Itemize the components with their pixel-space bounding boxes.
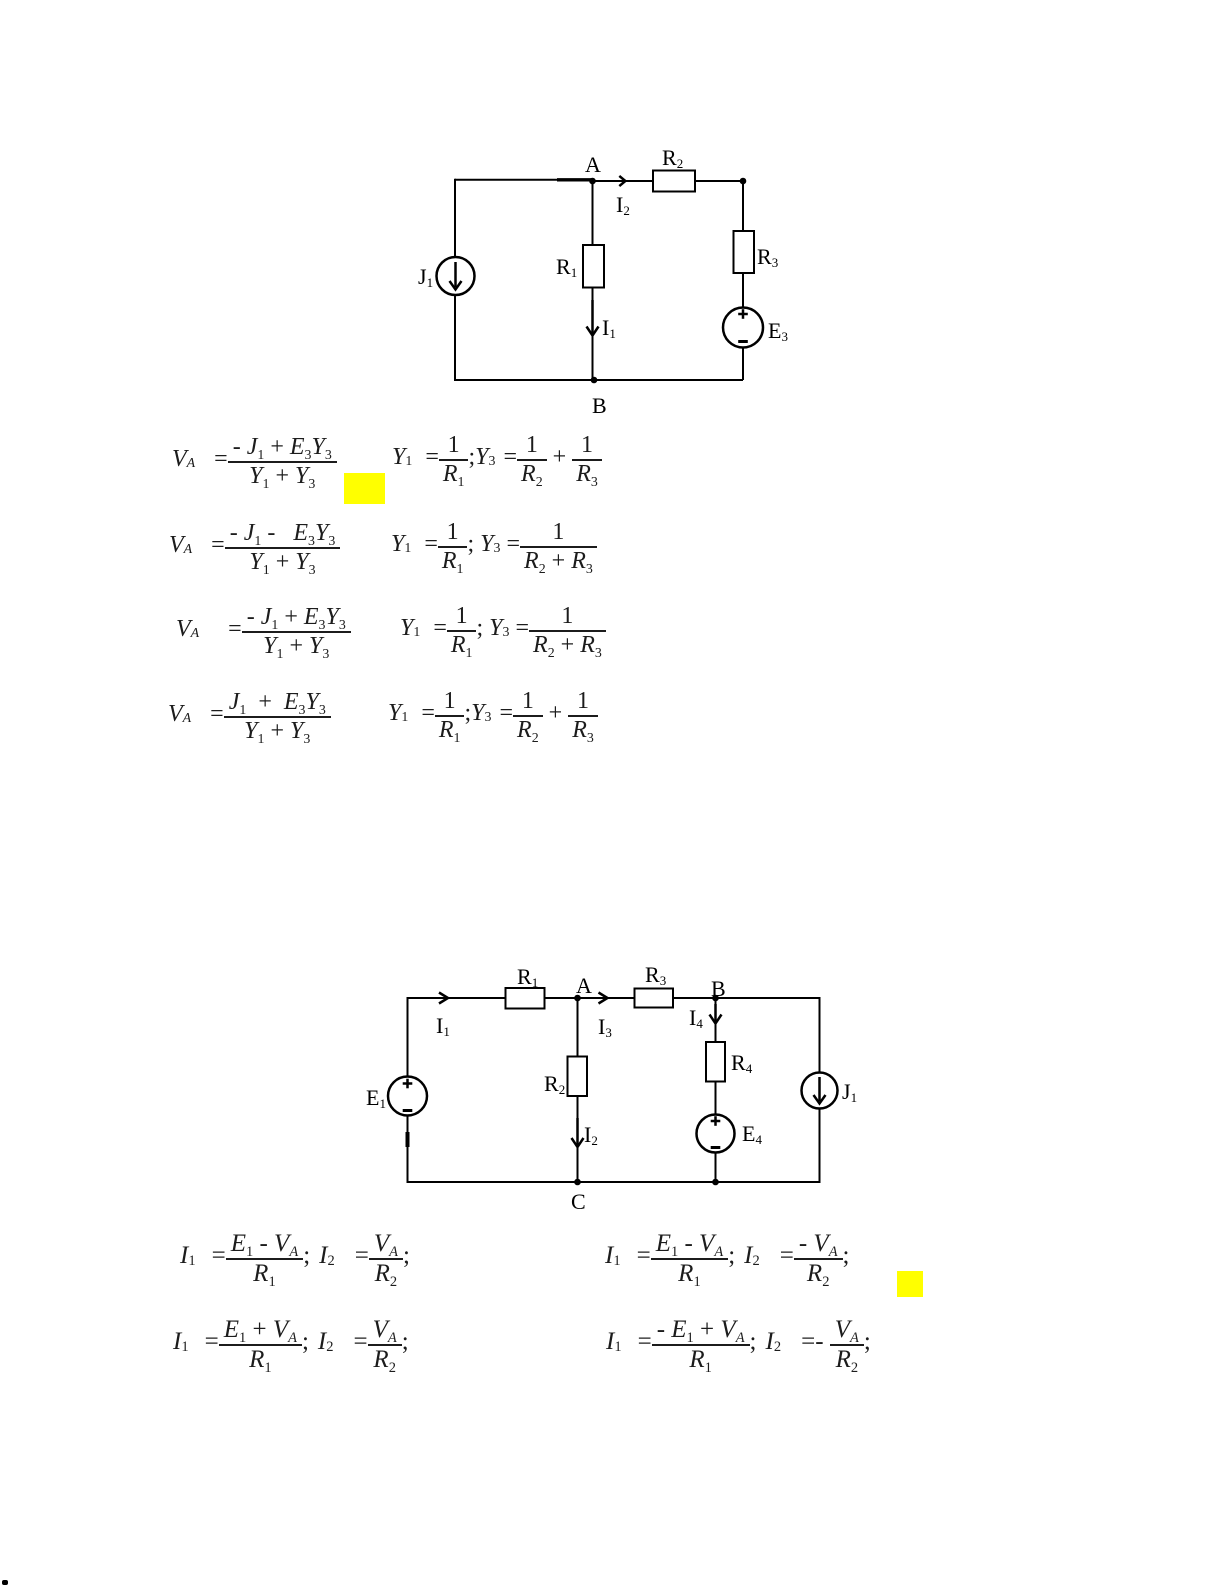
wire branch A C2 xyxy=(577,998,579,1182)
current arrow I1 C2 xyxy=(439,993,448,1004)
wire left C1 xyxy=(454,179,456,381)
wire thick segment below E1 xyxy=(406,1132,410,1147)
formula option 3: Y1,Y3 expressions xyxy=(400,600,606,656)
node A C2 xyxy=(574,995,581,1002)
wire top C1 xyxy=(455,180,743,181)
node B xyxy=(591,377,598,384)
node B label xyxy=(592,395,607,417)
node A C2 label xyxy=(576,975,592,997)
formula option 2: Y1,Y3 expressions xyxy=(391,516,597,572)
current arrow I1 xyxy=(587,300,599,336)
formula option 3: VA expression xyxy=(176,601,351,657)
current I2 C2 label xyxy=(584,1124,598,1146)
resistor R3 C2 label xyxy=(645,964,666,986)
wire bottom C2 xyxy=(408,1181,820,1183)
current I2 label xyxy=(616,194,630,216)
node C C2 xyxy=(574,1179,581,1186)
current source J1 xyxy=(437,257,475,295)
voltage source E3 xyxy=(723,308,763,348)
highlight yellow box 2 xyxy=(897,1271,923,1297)
current I1 C2 label xyxy=(436,1015,450,1037)
formula option 1: Y1,Y3 expressions xyxy=(392,429,602,485)
node top-right C1 xyxy=(740,178,747,185)
resistor R2 xyxy=(653,171,695,192)
formula option C: I1,I2 expressions xyxy=(173,1313,409,1371)
voltage E4 label xyxy=(742,1123,762,1145)
voltage E3 label xyxy=(768,320,788,342)
node B C2 xyxy=(712,995,719,1002)
current arrow I4 xyxy=(710,1004,722,1024)
current I1 label xyxy=(602,317,616,339)
current I4 label xyxy=(689,1007,703,1029)
wire right C2 xyxy=(819,997,821,1183)
current arrow I2 xyxy=(619,176,625,186)
wire left C2 xyxy=(407,997,409,1183)
resistor R4 C2 xyxy=(706,1042,725,1082)
formula option 4: VA expression xyxy=(168,686,331,742)
node C label xyxy=(571,1191,586,1213)
resistor R3 value label xyxy=(757,246,778,268)
node B C2 label xyxy=(711,978,726,1000)
resistor R2 C2 xyxy=(568,1057,588,1097)
formula option 4: Y1,Y3 expressions xyxy=(388,685,598,741)
resistor R1 C2 xyxy=(506,988,545,1009)
wire bottom C1 xyxy=(455,379,743,381)
wire branch B C2 xyxy=(715,998,717,1182)
highlight yellow box 1 xyxy=(344,473,385,504)
formula option A: I1,I2 expressions xyxy=(180,1227,410,1285)
formula option B: I1,I2 expressions xyxy=(605,1227,850,1285)
current source J1 C2 xyxy=(802,1073,838,1109)
wire top C2 xyxy=(408,997,820,999)
stray dot bottom-left xyxy=(2,1580,8,1585)
voltage E1 label xyxy=(366,1087,386,1109)
resistor R2 value label xyxy=(662,147,683,169)
formula option 1: VA expression xyxy=(172,431,337,487)
current source J1 label xyxy=(418,266,433,288)
resistor R1 xyxy=(583,245,604,288)
current I3 label xyxy=(598,1016,612,1038)
resistor R1 C2 label xyxy=(517,966,538,988)
wire middle branch C1 xyxy=(592,181,594,380)
current source J1 C2 label xyxy=(842,1081,857,1103)
wire right branch C1 xyxy=(742,181,744,380)
formula option 2: VA expression xyxy=(169,517,340,573)
resistor R2 C2 label xyxy=(544,1073,565,1095)
formula option D: I1,I2 expressions xyxy=(606,1313,871,1371)
node A xyxy=(589,178,596,185)
node bottom E4 branch xyxy=(712,1179,719,1186)
voltage source E4 xyxy=(697,1115,735,1153)
resistor R3 xyxy=(734,231,755,273)
node A label xyxy=(585,154,601,176)
current arrow I3 xyxy=(599,993,608,1004)
resistor R3 C2 xyxy=(635,989,674,1008)
voltage source E1 xyxy=(388,1077,427,1116)
resistor R4 C2 label xyxy=(731,1052,752,1074)
resistor R1 value label xyxy=(556,256,577,278)
current arrow I2 C2 xyxy=(572,1118,584,1147)
